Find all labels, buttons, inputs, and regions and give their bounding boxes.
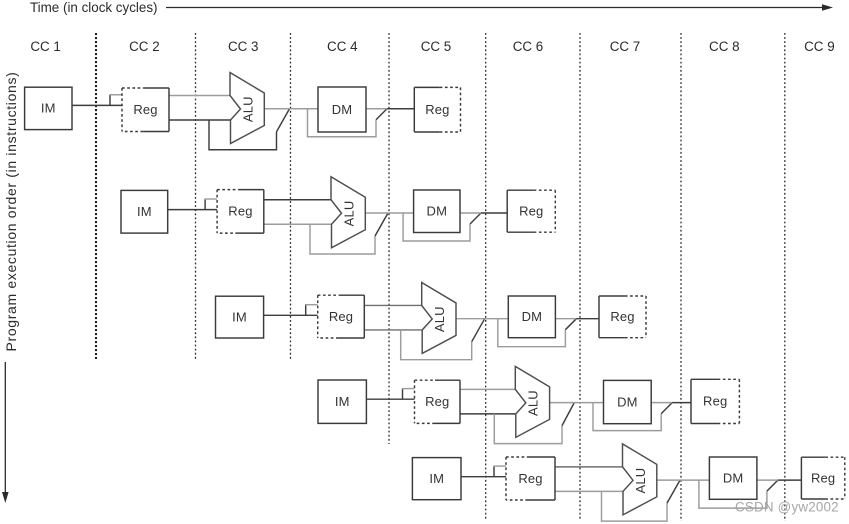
wire Reg to ALU upper input (instruction 2) bbox=[264, 199, 331, 201]
svg-text:CC 1: CC 1 bbox=[30, 39, 61, 54]
wire loop under ALU (instruction 5) bbox=[602, 491, 668, 521]
data memory box DM (instruction 3) bbox=[508, 296, 555, 338]
svg-text:ALU: ALU bbox=[526, 390, 541, 416]
register read box Reg (instruction 4) bbox=[415, 380, 461, 423]
wire loop under DM (instruction 3) bbox=[498, 319, 566, 347]
svg-text:ALU: ALU bbox=[633, 468, 648, 494]
clock cycle divider CC5/CC6 bbox=[485, 33, 487, 520]
clock cycle label CC 4 bbox=[327, 39, 358, 54]
clock cycle label CC 3 bbox=[228, 39, 259, 54]
register read box Reg (instruction 2) bbox=[217, 190, 264, 234]
svg-text:ALU: ALU bbox=[240, 96, 255, 122]
wire loop under DM (instruction 1) bbox=[308, 109, 377, 137]
svg-text:Reg: Reg bbox=[425, 102, 449, 117]
svg-text:Reg: Reg bbox=[519, 204, 543, 219]
clock cycle label CC 6 bbox=[513, 39, 544, 54]
ALU (instruction 5) bbox=[623, 444, 657, 515]
wire Reg to ALU upper input (instruction 1) bbox=[169, 95, 230, 97]
svg-text:CC 7: CC 7 bbox=[610, 39, 641, 54]
wire DM to Reg writeback (instruction 3) bbox=[555, 318, 599, 320]
ALU (instruction 2) bbox=[331, 177, 365, 248]
svg-text:IM: IM bbox=[429, 471, 444, 486]
clock cycle divider CC4/CC5 bbox=[388, 33, 390, 444]
wire loop under ALU (instruction 3) bbox=[401, 330, 472, 360]
wire DM to Reg writeback (instruction 5) bbox=[757, 479, 802, 481]
svg-text:DM: DM bbox=[723, 470, 744, 485]
svg-text:IM: IM bbox=[335, 394, 350, 409]
wire DM loop diagonal (instruction 3) bbox=[565, 319, 576, 330]
wire DM loop diagonal (instruction 5) bbox=[767, 480, 778, 491]
register writeback box Reg (instruction 5) bbox=[801, 457, 844, 499]
watermark bbox=[735, 500, 839, 515]
instruction fetch box IM (instruction 3) bbox=[216, 296, 264, 338]
wire DM to Reg writeback (instruction 2) bbox=[460, 212, 507, 214]
clock cycle divider CC6/CC7 bbox=[579, 33, 581, 520]
wire Reg to ALU lower input (instruction 3) bbox=[364, 329, 422, 331]
wire ALU output to DM (instruction 1) bbox=[264, 108, 318, 110]
wire ALU output to DM (instruction 4) bbox=[550, 402, 604, 404]
svg-text:CC 5: CC 5 bbox=[421, 39, 452, 54]
wire IM to Reg (instruction 3) bbox=[264, 314, 318, 316]
wire DM to Reg writeback (instruction 4) bbox=[651, 402, 691, 404]
clock cycle label CC 7 bbox=[610, 39, 641, 54]
svg-text:Reg: Reg bbox=[610, 309, 634, 324]
register read box Reg (instruction 1) bbox=[122, 88, 169, 132]
time axis label bbox=[30, 0, 157, 15]
wire Reg to ALU lower input (instruction 1) bbox=[169, 119, 231, 121]
wire loop under DM (instruction 5) bbox=[699, 480, 767, 508]
ALU (instruction 4) bbox=[515, 366, 549, 437]
wire IM to Reg (instruction 1) bbox=[72, 104, 122, 106]
svg-text:Reg: Reg bbox=[518, 471, 542, 486]
wire Reg to ALU lower input (instruction 5) bbox=[555, 490, 623, 492]
wire IM to Reg (instruction 2) bbox=[168, 209, 217, 211]
clock cycle divider CC7/CC8 bbox=[680, 33, 682, 521]
clock cycle label CC 9 bbox=[804, 39, 835, 54]
svg-text:Time (in clock cycles): Time (in clock cycles) bbox=[30, 0, 157, 15]
svg-text:Reg: Reg bbox=[228, 204, 252, 219]
svg-text:Reg: Reg bbox=[703, 394, 727, 409]
svg-text:IM: IM bbox=[137, 204, 152, 219]
wire Reg to ALU upper input (instruction 5) bbox=[555, 466, 623, 468]
wire Reg to ALU lower input (instruction 4) bbox=[460, 413, 516, 415]
svg-text:Reg: Reg bbox=[133, 102, 157, 117]
svg-text:DM: DM bbox=[427, 204, 448, 219]
wire DM loop diagonal (instruction 1) bbox=[376, 109, 387, 120]
program execution order arrow bbox=[2, 362, 9, 503]
wire Reg to ALU upper input (instruction 4) bbox=[460, 388, 515, 390]
clock cycle divider CC3/CC4 bbox=[290, 33, 292, 359]
svg-text:DM: DM bbox=[617, 394, 638, 409]
wire ALU output to DM (instruction 3) bbox=[456, 318, 508, 320]
program execution order label bbox=[3, 72, 19, 352]
wire DM loop diagonal (instruction 4) bbox=[661, 403, 672, 414]
svg-text:DM: DM bbox=[522, 309, 543, 324]
clock cycle label CC 2 bbox=[129, 39, 160, 54]
wire DM to Reg writeback (instruction 1) bbox=[366, 108, 414, 110]
ALU (instruction 3) bbox=[422, 282, 456, 353]
svg-text:CSDN @yw2002: CSDN @yw2002 bbox=[735, 500, 839, 515]
svg-text:IM: IM bbox=[232, 309, 247, 324]
wire loop under DM (instruction 4) bbox=[593, 403, 661, 431]
ALU (instruction 1) bbox=[230, 73, 264, 144]
wire IM to Reg (instruction 4) bbox=[366, 398, 414, 400]
svg-text:IM: IM bbox=[41, 101, 56, 116]
data memory box DM (instruction 1) bbox=[318, 87, 366, 132]
svg-text:Program execution order (in in: Program execution order (in instructions… bbox=[3, 72, 19, 352]
wire Reg write hook (instruction 4) bbox=[402, 389, 415, 400]
clock cycle label CC 8 bbox=[709, 39, 740, 54]
svg-text:CC 6: CC 6 bbox=[513, 39, 544, 54]
wire Reg write hook (instruction 5) bbox=[493, 466, 506, 477]
svg-text:ALU: ALU bbox=[341, 201, 356, 227]
svg-text:DM: DM bbox=[332, 102, 353, 117]
wire loop under ALU (instruction 2) bbox=[310, 224, 375, 254]
wire loop under ALU (instruction 1) bbox=[209, 120, 277, 150]
wire ALU loop diagonal (instruction 2) bbox=[375, 213, 388, 236]
clock cycle divider CC1/CC2 bbox=[95, 33, 97, 359]
data memory box DM (instruction 2) bbox=[414, 190, 460, 233]
time axis arrow bbox=[166, 4, 833, 11]
wire ALU loop diagonal (instruction 3) bbox=[472, 319, 485, 342]
clock cycle label CC 1 bbox=[30, 39, 61, 54]
wire ALU output to DM (instruction 5) bbox=[657, 479, 710, 481]
register read box Reg (instruction 3) bbox=[318, 295, 365, 338]
wire Reg write hook (instruction 3) bbox=[305, 305, 318, 316]
register writeback box Reg (instruction 4) bbox=[691, 379, 739, 423]
wire Reg write hook (instruction 2) bbox=[205, 199, 218, 210]
wire ALU loop diagonal (instruction 4) bbox=[562, 403, 574, 426]
wire Reg write hook (instruction 1) bbox=[109, 95, 122, 106]
clock cycle divider CC2/CC3 bbox=[195, 33, 197, 359]
svg-text:CC 2: CC 2 bbox=[129, 39, 160, 54]
svg-text:Reg: Reg bbox=[425, 394, 449, 409]
data memory box DM (instruction 4) bbox=[604, 380, 652, 423]
svg-text:CC 8: CC 8 bbox=[709, 39, 740, 54]
instruction fetch box IM (instruction 5) bbox=[412, 458, 461, 500]
clock cycle divider CC8/CC9 bbox=[784, 33, 786, 521]
wire ALU loop diagonal (instruction 5) bbox=[667, 480, 680, 503]
svg-text:CC 4: CC 4 bbox=[327, 39, 358, 54]
wire Reg to ALU lower input (instruction 2) bbox=[264, 223, 332, 225]
wire loop under DM (instruction 2) bbox=[403, 213, 470, 241]
wire ALU loop diagonal (instruction 1) bbox=[277, 109, 290, 132]
wire DM loop diagonal (instruction 2) bbox=[470, 213, 481, 224]
register writeback box Reg (instruction 1) bbox=[414, 87, 460, 132]
instruction fetch box IM (instruction 1) bbox=[25, 87, 72, 129]
clock cycle label CC 5 bbox=[421, 39, 452, 54]
register writeback box Reg (instruction 2) bbox=[507, 190, 555, 232]
register read box Reg (instruction 5) bbox=[506, 457, 555, 500]
register writeback box Reg (instruction 3) bbox=[599, 296, 646, 338]
svg-text:CC 3: CC 3 bbox=[228, 39, 259, 54]
wire Reg to ALU upper input (instruction 3) bbox=[364, 304, 421, 306]
wire IM to Reg (instruction 5) bbox=[461, 476, 506, 478]
instruction fetch box IM (instruction 4) bbox=[318, 380, 366, 423]
svg-text:CC 9: CC 9 bbox=[804, 39, 835, 54]
svg-text:ALU: ALU bbox=[432, 306, 447, 332]
instruction fetch box IM (instruction 2) bbox=[121, 190, 168, 233]
svg-text:Reg: Reg bbox=[329, 309, 353, 324]
data memory box DM (instruction 5) bbox=[709, 457, 757, 499]
wire ALU output to DM (instruction 2) bbox=[365, 212, 413, 214]
wire loop under ALU (instruction 4) bbox=[494, 414, 562, 444]
svg-text:Reg: Reg bbox=[811, 470, 835, 485]
